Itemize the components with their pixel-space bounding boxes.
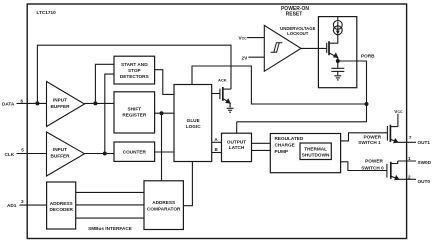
op-amp input buffer CLK	[47, 132, 85, 176]
wire VCC to comparator	[247, 37, 264, 39]
wire 2V to comparator	[248, 56, 264, 58]
svg-text:LOCKOUT: LOCKOUT	[287, 31, 309, 36]
op-amp undervoltage lockout comparator	[264, 25, 301, 71]
svg-text:AD1: AD1	[7, 203, 17, 208]
svg-text:OUT0: OUT0	[418, 179, 431, 184]
block glue logic	[174, 85, 212, 162]
svg-text:SW0D: SW0D	[418, 160, 432, 165]
svg-text:OUTPUT: OUTPUT	[227, 139, 246, 144]
svg-text:VCC: VCC	[394, 109, 403, 114]
block counter	[114, 142, 155, 161]
wire glue logic to address comparator	[183, 162, 192, 206]
wire DATA buffer to shift register	[85, 102, 115, 104]
svg-text:DATA: DATA	[2, 102, 15, 107]
node CLK buffer output	[103, 152, 107, 156]
wire SW0D pin	[398, 160, 416, 162]
svg-text:SHUTDOWN: SHUTDOWN	[302, 153, 330, 158]
svg-text:DECODER: DECODER	[49, 207, 73, 212]
box power-on reset circuit	[318, 17, 356, 88]
wire PORB to output latch	[236, 122, 238, 133]
svg-text:7: 7	[409, 135, 412, 140]
svg-text:BUFFER: BUFFER	[50, 104, 70, 109]
block address decoder	[47, 182, 76, 229]
svg-text:START AND: START AND	[121, 62, 148, 67]
svg-text:ADDRESS: ADDRESS	[152, 200, 175, 205]
wire charge pump to power switch 0	[341, 162, 387, 171]
svg-text:BUFFER: BUFFER	[50, 153, 70, 158]
transistor ACK	[212, 87, 231, 108]
wire glue to latch B	[212, 152, 222, 154]
svg-text:RESET: RESET	[286, 11, 303, 17]
svg-text:POWER: POWER	[363, 135, 381, 140]
svg-text:DETECTORS: DETECTORS	[120, 74, 149, 79]
hysteresis symbol	[271, 43, 283, 53]
svg-text:PORB: PORB	[361, 54, 375, 59]
wire CLK buffer to counter	[85, 153, 115, 155]
wire shift register to address comparator	[161, 113, 163, 181]
wire latch to charge pump 1	[252, 142, 271, 144]
transistor power switch 0	[387, 161, 400, 180]
svg-text:LTC1710: LTC1710	[37, 10, 57, 15]
svg-text:CLK: CLK	[5, 152, 15, 157]
svg-text:REGULATED: REGULATED	[275, 136, 304, 141]
svg-text:THERMAL: THERMAL	[304, 147, 327, 152]
wire decoder to comparator bus 3	[76, 217, 144, 219]
svg-text:2: 2	[408, 175, 411, 180]
svg-text:VCC: VCC	[239, 36, 248, 41]
svg-text:SHIFT: SHIFT	[128, 107, 142, 112]
wire AD1 pin	[20, 204, 47, 206]
svg-text:SWITCH 1: SWITCH 1	[358, 140, 381, 145]
svg-text:INPUT: INPUT	[53, 98, 67, 103]
wire decoder to comparator bus 1	[76, 191, 144, 193]
svg-text:GLUE: GLUE	[187, 118, 200, 123]
transistor POR	[327, 35, 339, 61]
svg-text:COMPARATOR: COMPARATOR	[147, 207, 181, 212]
wire PORB net	[237, 61, 367, 122]
svg-text:2V: 2V	[242, 55, 249, 60]
wire latch to charge pump 2	[252, 149, 271, 151]
block thermal shutdown	[300, 143, 331, 160]
svg-text:COUNTER: COUNTER	[123, 150, 147, 155]
svg-text:3: 3	[21, 199, 24, 204]
block output latch	[222, 133, 252, 161]
transistor power switch 1	[387, 125, 398, 144]
svg-text:POWER: POWER	[365, 158, 383, 163]
svg-text:PUMP: PUMP	[275, 149, 289, 154]
node DATA to ACK branch	[35, 101, 39, 105]
op-amp input buffer DATA	[47, 82, 85, 127]
svg-text:STOP: STOP	[128, 68, 141, 73]
svg-text:REGISTER: REGISTER	[122, 112, 147, 117]
node shift register output	[160, 111, 164, 115]
wire decoder to comparator bus 2	[76, 204, 144, 206]
svg-text:ADDRESS: ADDRESS	[50, 201, 73, 206]
svg-text:ACK: ACK	[218, 78, 227, 83]
svg-text:OUT1: OUT1	[418, 140, 431, 145]
node DATA buffer output	[93, 101, 97, 105]
wire shift register to glue logic	[155, 112, 174, 114]
wire DATA pin	[17, 102, 47, 104]
svg-text:INPUT: INPUT	[53, 147, 67, 152]
node PORB	[336, 59, 340, 63]
wire OUT1 pin	[398, 141, 416, 143]
wire glue to latch A	[212, 141, 222, 143]
wire charge pump to power switch 1	[341, 133, 388, 141]
wire CLK pin	[17, 153, 47, 155]
ground ACK	[227, 108, 234, 112]
block regulated charge pump	[270, 134, 340, 173]
svg-text:LOGIC: LOGIC	[186, 124, 201, 129]
svg-text:1: 1	[408, 156, 411, 161]
svg-text:SMBus INTERFACE: SMBus INTERFACE	[88, 226, 132, 231]
ground POR	[334, 76, 341, 80]
wire counter to glue logic	[155, 151, 174, 153]
capacitor POR	[331, 61, 344, 75]
block shift register	[114, 92, 155, 133]
wire DATA to ACK drain	[37, 45, 231, 103]
wire DATA to start/stop detector	[95, 64, 114, 103]
wire VCC to switch 1 source	[397, 114, 399, 127]
svg-text:A: A	[214, 137, 217, 142]
wire OUT0 pin	[399, 178, 416, 180]
svg-text:5: 5	[21, 148, 24, 153]
current source POR	[333, 17, 342, 35]
node PORB junction	[365, 102, 369, 106]
svg-text:LATCH: LATCH	[229, 145, 245, 150]
wire glue logic top to PORB net	[192, 66, 367, 104]
svg-text:CHARGE: CHARGE	[275, 143, 295, 148]
wire CLK to start/stop detector	[105, 74, 114, 153]
svg-text:SWITCH 0: SWITCH 0	[361, 165, 384, 170]
block start and stop detectors	[114, 56, 155, 84]
wire start/stop to glue logic	[155, 70, 174, 95]
wire comparator output to POR transistor gate	[301, 47, 327, 49]
block address comparator	[144, 181, 183, 230]
svg-text:B: B	[215, 147, 218, 152]
